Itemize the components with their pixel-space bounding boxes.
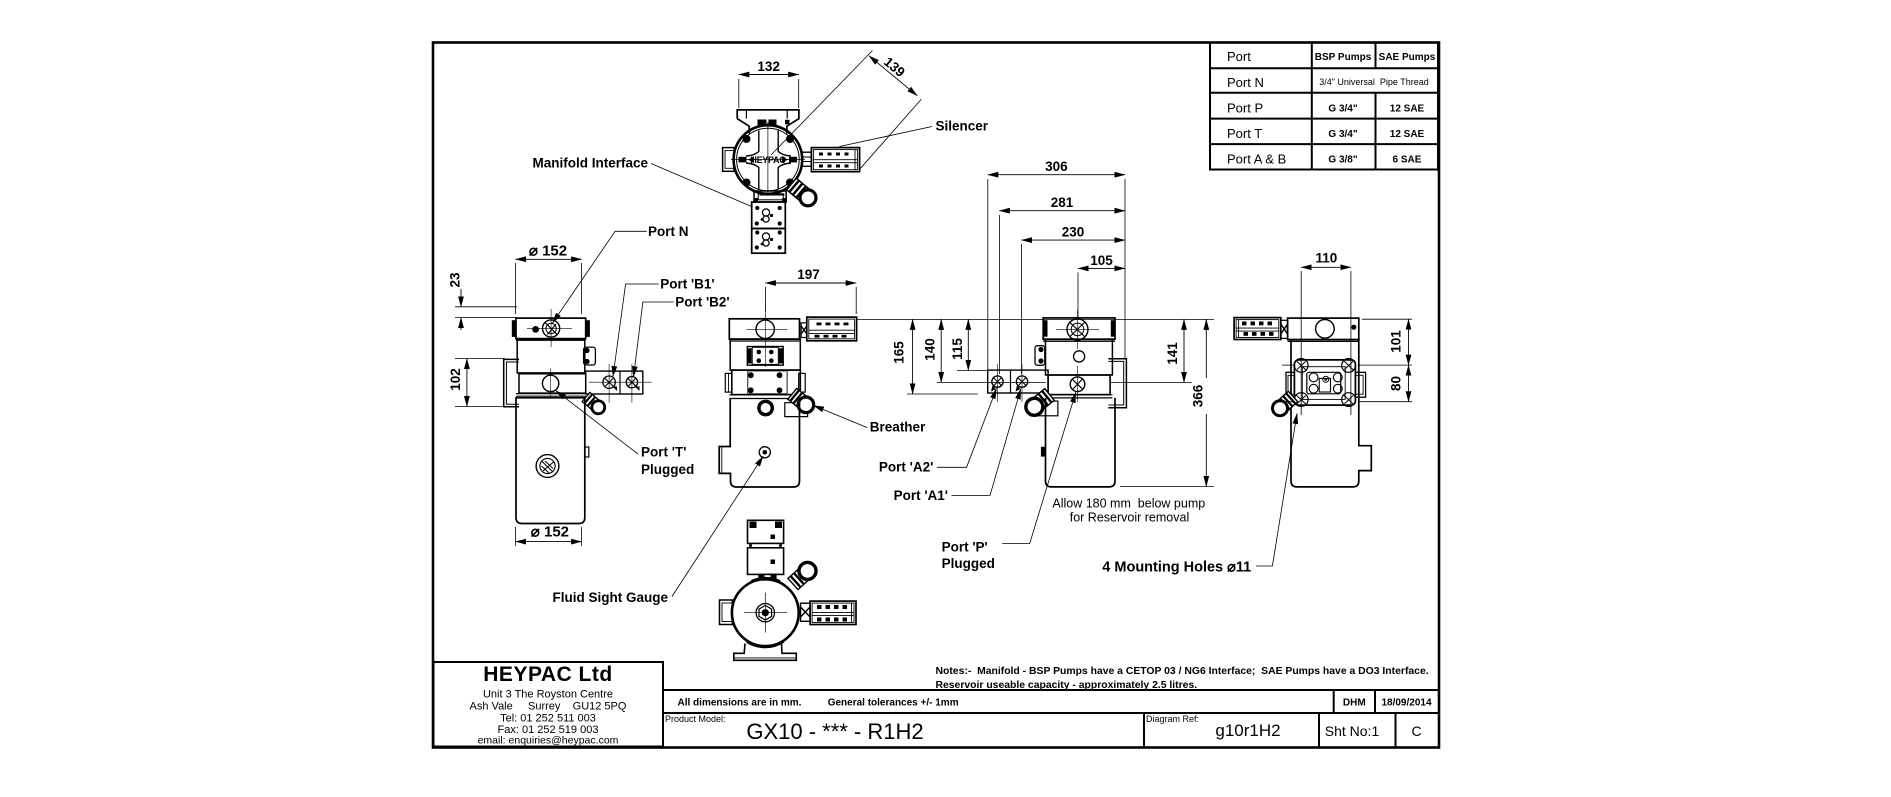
svg-text:Diagram Ref:: Diagram Ref: <box>1146 714 1199 724</box>
svg-text:281: 281 <box>1051 195 1074 210</box>
svg-text:141: 141 <box>1165 342 1180 365</box>
left tab (top view) <box>723 148 735 172</box>
port P <box>1070 377 1085 392</box>
reservoir gasket plate (left view) <box>516 393 586 395</box>
ports B1 B2 arm <box>586 371 643 394</box>
manifold plate (front view) <box>747 347 783 366</box>
body with reservoir (back view) <box>1291 340 1371 487</box>
svg-text:G 3/4": G 3/4" <box>1328 129 1357 140</box>
latch (right view) <box>1035 346 1045 366</box>
svg-text:132: 132 <box>757 59 780 74</box>
mounting bracket (right view) <box>1108 359 1126 408</box>
port B1 <box>603 376 615 388</box>
reservoir (right view) <box>1046 398 1116 487</box>
base flange (bottom view) <box>734 644 797 661</box>
svg-text:for Reservoir removal: for Reservoir removal <box>1070 511 1189 525</box>
motor cap (back view) <box>1288 318 1359 339</box>
ports A1 A2 arm <box>988 370 1048 393</box>
manifold port pattern <box>1309 373 1342 393</box>
svg-text:Allow 180 mm below pump: Allow 180 mm below pump <box>1052 497 1205 511</box>
top view flange <box>737 110 799 134</box>
svg-text:Breather: Breather <box>870 420 926 435</box>
svg-text:366: 366 <box>1191 384 1206 407</box>
HEYPAC name band <box>739 157 747 163</box>
left tab (bottom view) <box>720 600 733 625</box>
drawing sheet frame <box>433 43 1439 748</box>
svg-text:Port 'B1': Port 'B1' <box>660 277 714 292</box>
dims 101 & 80 <box>1362 318 1412 320</box>
svg-text:23: 23 <box>448 272 463 288</box>
motor cap (left view) <box>516 318 586 339</box>
silencer (bottom view) <box>810 601 856 624</box>
company block text <box>470 663 627 747</box>
svg-text:Plugged: Plugged <box>942 556 995 571</box>
svg-text:⌀ 152: ⌀ 152 <box>529 243 567 260</box>
motor cap (right view) <box>1043 318 1115 339</box>
port T plugged <box>542 375 558 391</box>
reservoir top plate (right view) <box>1046 394 1113 396</box>
port B2 <box>626 377 637 388</box>
svg-text:Ash Vale Surrey GU12 5P: Ash Vale Surrey GU12 5PQ <box>470 701 627 713</box>
svg-text:110: 110 <box>1316 251 1338 266</box>
svg-text:3/4" Universal Pipe Thread: 3/4" Universal Pipe Thread <box>1319 77 1429 87</box>
manifold side tabs <box>1286 372 1294 397</box>
svg-text:DHM: DHM <box>1343 698 1366 709</box>
port A2 <box>992 376 1003 387</box>
svg-text:HEYPAC: HEYPAC <box>750 155 786 165</box>
reservoir top plate (front view) <box>729 394 801 396</box>
svg-text:Port A & B: Port A & B <box>1227 152 1286 167</box>
svg-text:Plugged: Plugged <box>641 462 694 477</box>
silencer (front view) <box>807 317 857 341</box>
svg-text:Manifold Interface: Manifold Interface <box>532 156 648 171</box>
breather hole (front view) <box>759 401 772 414</box>
svg-text:165: 165 <box>892 341 907 364</box>
breather boss (front view) <box>785 403 808 417</box>
svg-text:⌀ 152: ⌀ 152 <box>531 524 569 541</box>
reservoir (left view) <box>516 398 585 524</box>
silencer connector (front view) <box>801 323 807 338</box>
svg-text:Port T: Port T <box>1227 126 1262 141</box>
svg-text:140: 140 <box>923 338 938 361</box>
svg-text:Silencer: Silencer <box>936 119 989 134</box>
svg-text:Port 'A1': Port 'A1' <box>894 488 948 503</box>
pump band (right view) <box>1048 375 1110 395</box>
port N (left view) <box>543 320 560 337</box>
breather (back view) <box>1269 391 1298 419</box>
title block <box>434 662 1439 747</box>
svg-text:GX10 - *** - R1H2: GX10 - *** - R1H2 <box>746 719 923 744</box>
manifold corner bolts <box>1294 359 1355 407</box>
port N (front view) <box>756 320 774 338</box>
small port dot on cap <box>532 326 539 333</box>
reservoir (front view) <box>719 399 799 488</box>
manifold interface (back view) <box>1294 360 1355 405</box>
svg-text:4 Mounting Holes ⌀11: 4 Mounting Holes ⌀11 <box>1102 560 1251 576</box>
svg-text:80: 80 <box>1388 376 1403 391</box>
motor bolt dots <box>743 135 751 143</box>
bottom flange neck (top view) <box>754 191 786 202</box>
svg-text:Fluid Sight Gauge: Fluid Sight Gauge <box>553 590 669 605</box>
svg-text:Sht No:1: Sht No:1 <box>1325 723 1380 739</box>
breather (bottom view diagonal) <box>787 559 819 590</box>
svg-text:All dimensions are in mm.: All dimensions are in mm. <box>678 698 802 709</box>
sight gauge hole (front view) <box>759 447 770 458</box>
svg-text:Port 'B2': Port 'B2' <box>675 295 729 310</box>
svg-text:Port P: Port P <box>1227 101 1263 116</box>
svg-text:g10r1H2: g10r1H2 <box>1215 721 1280 740</box>
silencer connector (back view) <box>1281 320 1288 338</box>
motor casting cross <box>746 131 759 157</box>
svg-text:Port: Port <box>1227 49 1251 64</box>
motor circle (top view) <box>734 125 803 194</box>
motor body (right view) <box>1046 339 1113 375</box>
manifold block lower (top view) <box>752 229 786 254</box>
silencer (top view) <box>811 148 859 172</box>
port N (right view) <box>1067 319 1088 340</box>
breather (right view) <box>1022 388 1054 419</box>
svg-text:BSP Pumps: BSP Pumps <box>1315 52 1372 63</box>
silencer (back view) <box>1234 318 1281 340</box>
svg-text:101: 101 <box>1388 330 1403 353</box>
manifold stack (bottom view) <box>748 520 784 543</box>
svg-text:C: C <box>1411 723 1421 739</box>
port table top right <box>1210 43 1438 170</box>
svg-text:18/09/2014: 18/09/2014 <box>1381 698 1431 709</box>
svg-text:12 SAE: 12 SAE <box>1390 129 1425 140</box>
svg-text:SAE Pumps: SAE Pumps <box>1379 52 1436 63</box>
svg-text:email: enquiries@heypac.com: email: enquiries@heypac.com <box>478 735 619 747</box>
pump circle (bottom view) <box>732 579 799 646</box>
mounting bracket (left view) <box>504 359 519 406</box>
table text <box>1227 49 1436 167</box>
silencer connector (bottom view) <box>801 603 811 621</box>
fluid sight gauge (left view) <box>536 455 559 478</box>
shared top extension line <box>857 318 1040 320</box>
silencer connector <box>802 152 811 166</box>
svg-text:115: 115 <box>950 338 965 360</box>
manifold block upper (top view) <box>752 202 786 229</box>
svg-text:General tolerances +/- 1mm: General tolerances +/- 1mm <box>828 698 959 709</box>
svg-text:Product Model:: Product Model: <box>665 714 726 724</box>
svg-text:Unit 3 The Royston Centre: Unit 3 The Royston Centre <box>483 689 613 701</box>
dim 139 (diagonal) <box>771 51 873 156</box>
pump band (front view) <box>732 370 801 395</box>
neck (bottom view) <box>759 574 776 580</box>
motor body (left view) <box>517 340 585 373</box>
svg-text:230: 230 <box>1062 225 1085 240</box>
centerlines <box>767 122 769 196</box>
port N (back view) <box>1316 320 1335 339</box>
svg-text:Port 'P': Port 'P' <box>942 540 988 555</box>
port A1 <box>1016 376 1027 387</box>
svg-text:6 SAE: 6 SAE <box>1393 155 1422 166</box>
svg-text:G 3/8": G 3/8" <box>1328 155 1357 166</box>
breather (front view) <box>787 388 816 416</box>
svg-text:HEYPAC Ltd: HEYPAC Ltd <box>483 663 612 686</box>
motor terminal blocks <box>758 120 767 127</box>
motor cap (front view) <box>729 319 799 339</box>
breather (left view) <box>582 392 608 416</box>
svg-text:Port N: Port N <box>648 224 689 239</box>
breather boss (right view) <box>1035 401 1058 416</box>
pump band (left view) <box>519 374 586 393</box>
svg-text:306: 306 <box>1045 159 1068 174</box>
svg-text:105: 105 <box>1090 253 1113 268</box>
svg-text:Port 'A2': Port 'A2' <box>879 460 933 475</box>
svg-text:12 SAE: 12 SAE <box>1390 104 1425 115</box>
motor body (front view) <box>730 339 800 370</box>
breather (top view, diagonal) <box>786 178 819 209</box>
svg-text:102: 102 <box>448 368 463 391</box>
svg-text:Port N: Port N <box>1227 75 1264 90</box>
svg-text:Notes:- Manifold - BSP Pumps: Notes:- Manifold - BSP Pumps have a CETO… <box>936 666 1429 677</box>
latch (left view) <box>584 347 596 365</box>
svg-text:197: 197 <box>797 267 820 282</box>
svg-text:Port 'T': Port 'T' <box>641 445 686 460</box>
svg-text:Reservoir useable capacity - a: Reservoir useable capacity - approximate… <box>936 680 1198 691</box>
dim 132 <box>738 79 740 108</box>
svg-text:G 3/4": G 3/4" <box>1328 104 1357 115</box>
svg-text:Tel: 01 252 511 003: Tel: 01 252 511 003 <box>500 713 596 725</box>
